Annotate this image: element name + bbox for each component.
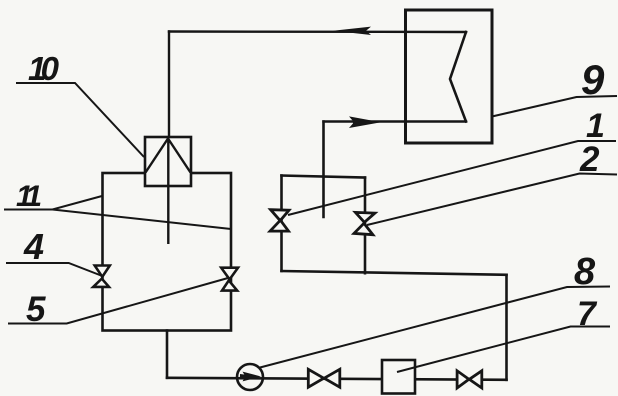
wire: vertical pipe into middle box [322, 122, 325, 218]
bowtie valve (after box 7) [457, 371, 482, 388]
wire: middle box bottom edge extending to riser [282, 271, 507, 275]
wire: vertical drop from top pipe toward component 10 [168, 32, 170, 138]
label 7 [397, 295, 610, 372]
wire: lower pipe from coil to middle box riser [324, 120, 467, 122]
valve 2 (right edge of middle box) [354, 212, 375, 234]
coil chevron inside box 9 [450, 32, 466, 122]
label 11 [4, 180, 231, 229]
wire: right riser [505, 275, 508, 380]
filter box 7 [382, 360, 415, 394]
label 5 [8, 278, 228, 329]
label 1 [288, 107, 616, 215]
wire: down-leg from vessel bottom [166, 331, 169, 378]
svg-text:10: 10 [28, 50, 60, 87]
bowtie valve (after pump) [308, 369, 340, 387]
wire: central spray pipe through component 10 [167, 137, 169, 244]
label 9 [492, 56, 617, 117]
arrow on lower pipe (flow right into box 9) [349, 116, 381, 128]
wire: bottom pipe [167, 378, 507, 380]
wire: middle box top edge [282, 176, 366, 178]
svg-text:4: 4 [23, 226, 44, 267]
valve 1 (left edge of middle box) [270, 210, 289, 231]
evaporator vessel 11 (large left box) [103, 173, 232, 331]
svg-text:11: 11 [16, 180, 42, 213]
pump 8 (circle with arrow) [237, 364, 263, 390]
valve 4 (left edge of vessel) [93, 266, 110, 287]
label 2 [367, 140, 617, 225]
label 10 [16, 50, 144, 157]
wire: middle box left edge [280, 176, 283, 272]
label 8 [260, 251, 610, 368]
condenser box 9 (top right) [406, 10, 493, 143]
valve 5 (right edge of vessel) [221, 268, 238, 291]
spray device 10 (box with triangle) [145, 137, 191, 186]
arrow on top pipe (flow left) [333, 27, 371, 35]
wire: middle box right edge [364, 178, 367, 274]
wire: top pipe from corner to heat-exchanger coil [169, 30, 466, 33]
label 4 [6, 226, 101, 276]
